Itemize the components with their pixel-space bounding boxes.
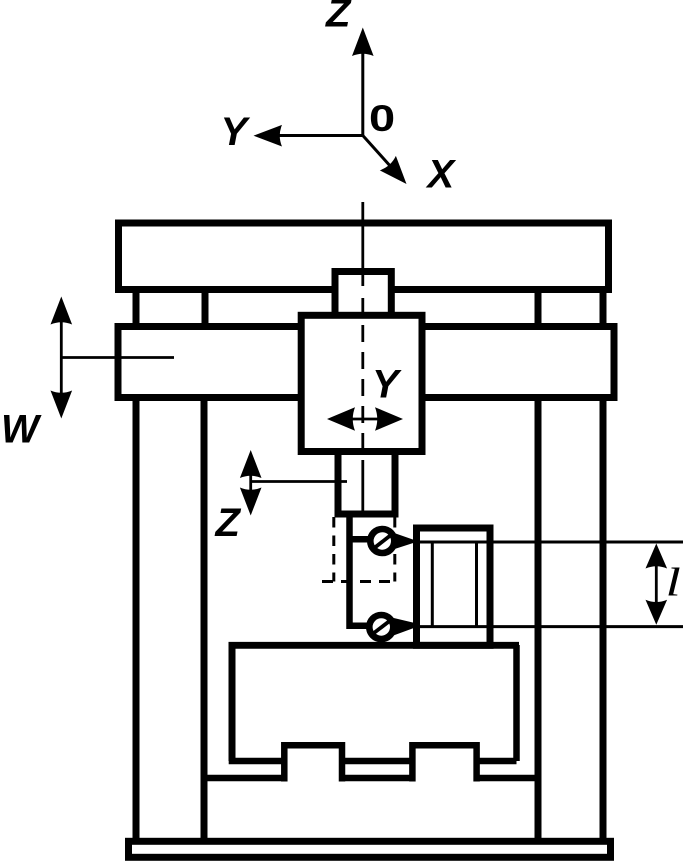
svg-text:W: W <box>1 408 42 452</box>
left upper block sides <box>136 286 205 330</box>
left column <box>136 398 204 842</box>
Z double arrow <box>249 472 252 494</box>
block inner verticals <box>432 542 476 627</box>
svg-text:Z: Z <box>215 501 242 545</box>
probe stub 1 <box>350 536 374 543</box>
svg-text:l: l <box>666 561 681 605</box>
block dim line lower <box>418 625 683 628</box>
spindle top block <box>335 272 391 316</box>
table right edge <box>513 645 520 761</box>
block dim line upper <box>418 541 683 544</box>
axis Z line <box>361 50 364 136</box>
workpiece block <box>417 528 491 645</box>
probe cone 1 <box>389 531 413 551</box>
saddle top segments <box>204 775 538 782</box>
probe cone 2 <box>389 617 414 638</box>
svg-text:Y: Y <box>221 110 251 154</box>
centerline <box>361 202 364 286</box>
quill <box>338 452 395 515</box>
table top edge <box>229 642 520 649</box>
axis X arrowhead <box>380 156 415 191</box>
Z axis line (machine) <box>251 480 347 483</box>
W axis line <box>61 356 174 359</box>
right upper block sides <box>538 286 603 330</box>
probe stub 2 <box>350 623 371 630</box>
table bottom edge segments <box>229 758 517 765</box>
W double arrow <box>60 318 63 397</box>
top beam <box>119 223 609 290</box>
Y double arrow (carriage) <box>350 418 380 421</box>
probe bar <box>346 514 353 629</box>
crossbeam <box>118 327 614 398</box>
axis Y line <box>276 134 363 137</box>
svg-text:0: 0 <box>369 98 395 139</box>
table left edge <box>229 645 236 761</box>
svg-text:Z: Z <box>325 0 352 36</box>
svg-text:Y: Y <box>372 363 402 407</box>
tongue 2 <box>412 745 476 781</box>
probe circle 1 <box>370 529 394 553</box>
axis Z arrowhead <box>352 28 374 57</box>
probe circle 2 <box>369 615 393 639</box>
svg-text:X: X <box>426 153 457 197</box>
probe slash 2 <box>371 620 391 636</box>
l dimension arrow <box>655 560 658 608</box>
right column <box>538 398 603 842</box>
base plate <box>129 841 611 857</box>
ghost dashed rect <box>334 517 395 582</box>
axis X line <box>363 136 392 168</box>
tongue 1 <box>284 745 342 781</box>
probe slash 1 <box>372 534 392 550</box>
axis Y arrowhead <box>254 125 283 147</box>
carriage <box>301 315 422 451</box>
